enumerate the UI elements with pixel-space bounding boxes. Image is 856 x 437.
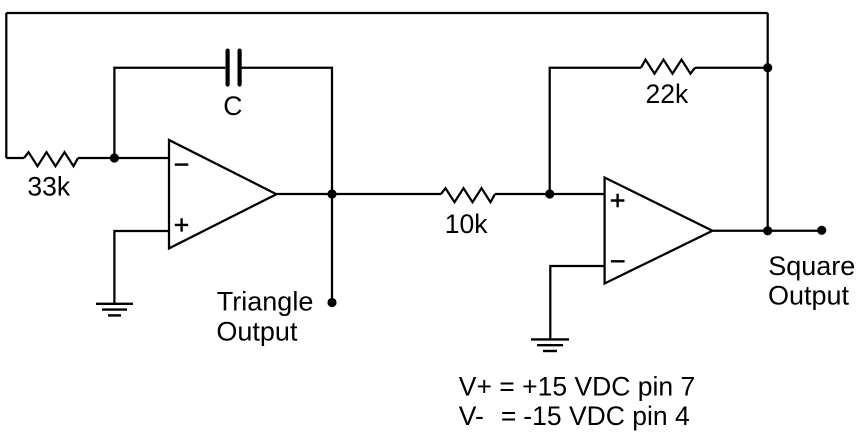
node square output terminal	[817, 226, 826, 235]
wire inverting node up to capacitor left lead	[114, 68, 225, 158]
op-amp U2 inverting input minus symbol	[611, 260, 625, 262]
wire op-amp U2 input node up to resistor 22k	[550, 68, 641, 194]
op-amp U2	[605, 178, 713, 284]
op-amp U1 non-inverting input plus symbol	[175, 218, 188, 231]
node op-amp U2 output junction	[763, 226, 772, 235]
wire resistor 33k to op-amp U1 inverting input	[78, 157, 169, 159]
svg-text:33k: 33k	[27, 172, 70, 202]
ground (op-amp U2 inverting input)	[531, 339, 569, 351]
node triangle output terminal	[327, 298, 336, 307]
capacitor C plates	[228, 51, 240, 85]
node op-amp U1 output junction	[327, 189, 336, 198]
svg-text:Triangle: Triangle	[217, 287, 314, 317]
svg-text:Output: Output	[768, 280, 850, 310]
svg-text:Output: Output	[216, 317, 298, 347]
wire op-amp U2 output to square output terminal	[713, 230, 822, 232]
op-amp U1 inverting input minus symbol	[175, 163, 189, 165]
wire resistor 22k to feedback loop junction	[695, 67, 768, 69]
svg-text:22k: 22k	[646, 79, 689, 109]
svg-text:C: C	[223, 91, 242, 121]
wire feedback loop right vertical	[767, 13, 769, 231]
op-amp U2 non-inverting input plus symbol	[611, 194, 625, 207]
wire resistor 10k to op-amp U2 non-inverting input	[495, 193, 605, 195]
svg-text:V+ = +15 VDC pin 7: V+ = +15 VDC pin 7	[459, 371, 695, 401]
resistor R3 22k	[641, 60, 695, 74]
wire op-amp U1 output to resistor 10k	[276, 193, 441, 195]
resistor R1 33k	[24, 152, 78, 166]
op-amp U1	[169, 140, 276, 248]
svg-text:Square: Square	[768, 251, 855, 281]
node op-amp U2 non-inverting input junction	[545, 189, 554, 198]
wire left input to resistor 33k	[6, 157, 24, 159]
wire op-amp U1 non-inverting input to ground	[114, 231, 169, 304]
resistor R2 10k	[441, 188, 495, 202]
wire triangle output stub	[331, 194, 333, 303]
wire op-amp U2 inverting input to ground	[550, 266, 604, 339]
ground (op-amp U1 non-inverting input)	[96, 304, 133, 316]
wire feedback loop left vertical	[5, 13, 7, 158]
wire capacitor right lead down to op-amp U1 output node	[242, 68, 332, 194]
node resistor 22k / feedback loop junction	[763, 63, 772, 72]
svg-text:10k: 10k	[445, 209, 488, 239]
wire feedback loop top horizontal	[6, 12, 767, 14]
node op-amp U1 inverting input junction	[110, 153, 119, 162]
